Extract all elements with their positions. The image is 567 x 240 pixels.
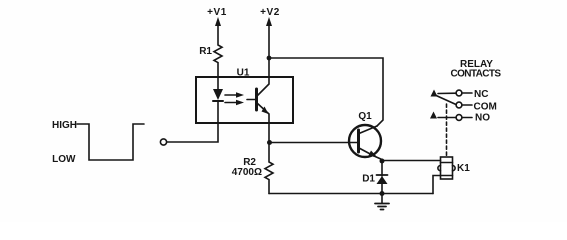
- junction Q1 emitter node: [380, 159, 385, 164]
- junction +V2/collector: [267, 56, 272, 61]
- svg-text:CONTACTS: CONTACTS: [450, 69, 501, 80]
- svg-text:U1: U1: [237, 68, 250, 79]
- svg-text:D1: D1: [362, 174, 375, 185]
- U1 LED: [213, 77, 223, 123]
- node NC contact: [456, 89, 488, 100]
- junction base node: [267, 140, 272, 145]
- svg-text:LOW: LOW: [52, 154, 76, 165]
- junction ground node: [380, 191, 385, 196]
- wire ground bus: [269, 193, 433, 195]
- wire mechanical dashed link: [446, 104, 448, 157]
- svg-text:HIGH: HIGH: [52, 120, 77, 131]
- svg-text:COM: COM: [474, 102, 497, 113]
- wire emitter node to relay coil: [382, 160, 441, 162]
- relay coil K1: [438, 157, 470, 179]
- transistor Q1: [349, 111, 382, 161]
- svg-text:K1: K1: [457, 163, 470, 174]
- node LOW label: [52, 154, 76, 165]
- resistor R1: [199, 22, 222, 77]
- ground: [375, 194, 389, 210]
- wire collector bus: [269, 58, 383, 126]
- wire input terminal: [160, 123, 218, 145]
- svg-text:+V2: +V2: [260, 7, 280, 18]
- wire coil return to ground bus: [433, 176, 441, 194]
- svg-text:R1: R1: [199, 46, 212, 57]
- U1 light arrows: [225, 92, 255, 105]
- wire base node to Q1: [269, 142, 357, 144]
- svg-text:Q1: Q1: [358, 111, 372, 122]
- svg-text:NO: NO: [475, 113, 490, 124]
- node RELAY CONTACTS label: [450, 59, 501, 80]
- resistor R2: [232, 143, 273, 194]
- svg-text:+V1: +V1: [207, 7, 227, 18]
- svg-text:NC: NC: [474, 89, 488, 100]
- node COM contact: [456, 102, 497, 113]
- node +V1 label: [207, 7, 227, 18]
- node NO arrow marker: [430, 112, 437, 119]
- node +V1 arrow: [215, 17, 221, 26]
- wire +V2 junction to U1: [268, 58, 270, 77]
- wire relay pole: [431, 90, 457, 105]
- wire U1 emitter to base junction: [268, 123, 270, 143]
- node HIGH label: [52, 120, 77, 131]
- node +V2 label: [260, 7, 280, 18]
- U1 phototransistor: [257, 77, 270, 123]
- diode D1: [362, 161, 387, 194]
- op-amp U1 optocoupler box: [196, 68, 293, 124]
- wire input waveform: [77, 124, 144, 160]
- node +V2 arrow: [266, 17, 272, 58]
- node NO contact: [438, 113, 490, 124]
- svg-text:4700Ω: 4700Ω: [232, 167, 262, 178]
